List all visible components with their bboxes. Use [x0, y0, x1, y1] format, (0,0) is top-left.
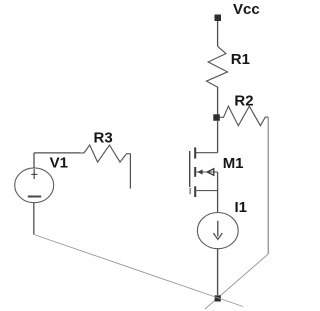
svg-text:Vcc: Vcc [233, 1, 260, 18]
M1 source lead [195, 190, 217, 192]
wire mid node to M1 drain [217, 121, 219, 153]
transistor M1 [190, 147, 218, 212]
M1 body line with arrow [196, 171, 217, 173]
I1 arrowhead [213, 233, 222, 239]
node drain junction (mid square) [213, 114, 220, 121]
svg-text:R3: R3 [94, 129, 113, 146]
wire V1 bottom down [33, 203, 35, 235]
current source I1 [197, 213, 238, 249]
svg-text:R2: R2 [234, 93, 253, 110]
M1 channel bar bottom [194, 186, 196, 197]
I1 arrow shaft [217, 221, 219, 237]
svg-text:V1: V1 [50, 154, 68, 171]
resistor R3 [80, 145, 130, 162]
wire right diagonal to bottom node [205, 254, 268, 309]
M1 channel bar middle [194, 167, 196, 177]
node bottom junction [215, 295, 221, 301]
resistor R1 [207, 46, 228, 87]
M1 gate bar faint stub [189, 188, 191, 194]
M1 drain lead [195, 152, 217, 154]
wire R3 right end down [129, 154, 131, 189]
M1 right vertical (body/source to I1) [217, 172, 219, 213]
wire Vcc node to R1 top [217, 21, 219, 46]
wire V1 top horizontal to R3 [34, 152, 80, 154]
svg-text:R1: R1 [231, 51, 250, 68]
M1 channel bar top [194, 147, 196, 158]
voltage source V1 [15, 168, 54, 203]
svg-text:M1: M1 [223, 155, 244, 172]
wire I1 bottom to ground node [217, 249, 219, 295]
M1 gate bar [189, 151, 191, 187]
node Vcc (top terminal square) [215, 15, 222, 22]
wire V1 top up [33, 153, 35, 168]
wire R1 bottom to mid node [217, 88, 219, 116]
wire R2 right end down right side [267, 117, 269, 254]
V1 minus sign [28, 196, 41, 198]
M1 body arrowhead open [207, 169, 214, 176]
wire left diagonal to bottom node [34, 235, 243, 307]
svg-text:I1: I1 [235, 199, 248, 216]
V1 plus sign vertical [33, 169, 35, 179]
V1 plus sign horizontal [31, 173, 37, 175]
I1 circle [197, 213, 238, 249]
resistor R2 [220, 106, 268, 126]
V1 circle [15, 168, 54, 203]
M1 body arrowhead filled [197, 169, 202, 174]
